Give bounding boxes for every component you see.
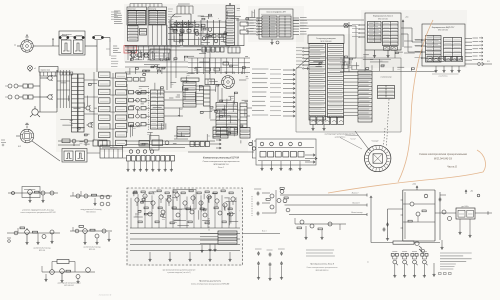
grid wires W5 <box>188 58 250 74</box>
svg-text:дел 50Hz: дел 50Hz <box>461 206 468 208</box>
svg-text:МЛ2.242.003 Сб: МЛ2.242.003 Сб <box>316 269 329 272</box>
wire trunk x40 <box>40 72 48 112</box>
stub comb top <box>130 4 162 8</box>
+U arrow 1 <box>412 184 418 191</box>
cells row top ML <box>125 78 145 82</box>
feedback loop frame <box>403 190 435 241</box>
switch box S1 <box>39 67 58 77</box>
output stages Z1-Z4 <box>391 252 428 278</box>
IC block L1 <box>151 90 165 129</box>
tube socket V2 <box>16 123 34 148</box>
wire cluster mid-left <box>128 82 183 148</box>
IC column C1 <box>358 71 372 122</box>
tube socket V1 <box>14 35 36 53</box>
scan tone 5 <box>127 188 243 266</box>
cells E3 <box>204 86 211 106</box>
det block U7 <box>456 206 475 219</box>
scan tone 4 <box>361 10 467 68</box>
dashed wire <box>148 88 150 131</box>
connector X1 <box>5 84 23 88</box>
wire node A <box>36 39 59 46</box>
notes text right <box>440 253 472 262</box>
wire cluster left strips <box>60 83 97 144</box>
svg-text:техотдел 4: техотдел 4 <box>99 294 112 297</box>
loop components <box>401 194 436 228</box>
wire cluster mid-center <box>181 77 248 144</box>
bottom rail y71 <box>340 70 436 72</box>
right cluster U6 <box>435 192 456 240</box>
loop bottom components <box>415 241 425 252</box>
wire y152 <box>188 151 254 153</box>
cells E5 <box>213 127 238 138</box>
svg-text:Схема электрическая принципиал: Схема электрическая принципиальная <box>419 152 467 156</box>
svg-text:Часть Б: Часть Б <box>447 166 457 169</box>
delay arrows <box>288 154 317 172</box>
wire mesh extra top-middle <box>170 23 229 48</box>
svg-text:МЛ2.034: МЛ2.034 <box>39 250 45 252</box>
connector X2 <box>5 95 23 99</box>
transformer TR1 <box>59 35 69 39</box>
transistor Q6 <box>142 52 148 58</box>
label haze D1 <box>168 9 175 22</box>
BT1 grounds <box>200 244 216 252</box>
svg-text:«частота»: «частота» <box>438 76 448 78</box>
transistor Q1 <box>46 75 52 81</box>
wide resistor RB <box>371 241 440 244</box>
handwritten title <box>419 152 467 169</box>
component rows ML <box>129 90 147 126</box>
junction drops <box>128 25 166 60</box>
filter F3 <box>62 139 70 143</box>
transformer TR2 <box>74 35 85 39</box>
wire x110 drop <box>106 42 110 56</box>
wire cluster top feed <box>198 8 255 20</box>
svg-text:МЛ2.244.002 Сб: МЛ2.244.002 Сб <box>213 163 229 166</box>
IC W1 <box>365 13 401 50</box>
lower cluster R3 <box>295 218 346 239</box>
filter circuit C <box>7 227 60 244</box>
left rail caps <box>383 209 403 240</box>
stage cluster R1 <box>262 190 281 213</box>
comb left CL <box>57 70 73 108</box>
dashed stub <box>208 218 210 231</box>
cell strip A <box>72 74 85 132</box>
filter circuit A <box>8 187 58 203</box>
svg-text:Коммутатор реализаций БЛ-9А: Коммутатор реализаций БЛ-9А <box>203 157 240 160</box>
analog board outline and stages <box>127 188 243 265</box>
caption E <box>57 282 80 287</box>
svg-text:Выход I: Выход I <box>352 192 359 195</box>
block F1c <box>216 103 238 136</box>
connector out X4 <box>465 61 492 66</box>
cells row S2 <box>197 47 240 53</box>
cap column M2 <box>267 250 273 280</box>
comb E2 <box>196 86 204 104</box>
label haze U5 <box>427 37 441 55</box>
wire cluster V bottom <box>307 61 385 70</box>
svg-text:Лист 1: Лист 1 <box>217 167 224 169</box>
caption M5 <box>306 263 337 272</box>
wire cluster right band <box>343 52 414 71</box>
caption D <box>84 246 101 251</box>
transistor Q5 <box>136 52 142 58</box>
svg-text:+12в: +12в <box>412 184 416 186</box>
wire U1 to V4 <box>293 20 364 58</box>
U5 waveform cells <box>427 57 463 62</box>
svg-text:Ш3: Ш3 <box>487 61 490 63</box>
horiz wires center <box>125 90 252 120</box>
W1 grounds <box>370 50 391 62</box>
transistor Q3 <box>30 106 57 117</box>
IC U5 <box>422 24 465 66</box>
tube socket V5 <box>365 145 391 171</box>
caption B <box>81 208 102 213</box>
svg-text:Преобразователь Блок 4: Преобразователь Блок 4 <box>310 263 335 266</box>
caption C <box>34 247 51 252</box>
notes text right2 <box>440 264 456 269</box>
comb V4-C <box>344 72 359 116</box>
input caps column <box>252 189 261 216</box>
U5 right pins <box>465 37 483 61</box>
svg-text:вход усилителя 2-й каскад: вход усилителя 2-й каскад <box>81 208 102 211</box>
svg-text:МЛ2.244.040 Сб: МЛ2.244.040 Сб <box>434 158 453 161</box>
svg-text:+6в: +6в <box>470 191 473 193</box>
svg-text:Схема электрическая принципиал: Схема электрическая принципиальная МЛ2.2… <box>191 283 229 286</box>
svg-text:перекл вкл: перекл вкл <box>41 70 51 72</box>
note text M4 <box>306 250 335 256</box>
IC V4 left column <box>309 44 326 121</box>
label haze U1 <box>263 18 276 35</box>
IC V4 title <box>308 35 344 44</box>
output table BT1 <box>200 231 237 244</box>
lamp H1 <box>28 66 38 72</box>
delay grounds <box>260 161 301 170</box>
W1 waveform cells <box>384 47 398 51</box>
U5 grounds <box>432 66 461 74</box>
leader line V4 <box>340 138 362 150</box>
cap column M3 <box>278 249 285 279</box>
pulse shaper block A2 <box>62 149 87 163</box>
transistor Q8 <box>87 122 93 128</box>
table N7 <box>240 128 256 159</box>
pin labels V4 <box>252 69 268 115</box>
scan tone 2 <box>56 68 248 152</box>
tube socket V3 <box>222 76 235 89</box>
svg-text:«выход»: «выход» <box>371 141 378 143</box>
RC lattice M1 <box>168 20 226 45</box>
svg-text:Выход II: Выход II <box>353 202 360 205</box>
filter F2 <box>23 95 40 99</box>
inter wires <box>340 50 395 72</box>
U5 left pins <box>415 39 426 58</box>
labels left of red box <box>113 46 121 53</box>
transistor Q10 <box>84 139 88 146</box>
delay unit strip <box>256 139 316 165</box>
cap column M1 <box>255 249 262 279</box>
svg-text:Выход контр: Выход контр <box>351 211 362 214</box>
cells N5 <box>190 142 216 147</box>
svg-text:МЛ2.036.002: МЛ2.036.002 <box>64 285 74 287</box>
pulse shaper block A1 <box>59 31 85 55</box>
block boundary <box>296 58 401 132</box>
strip feed wires <box>252 141 256 158</box>
vert wires center <box>167 25 222 102</box>
output line 3 <box>289 211 367 216</box>
unit marks <box>439 273 452 275</box>
V5 label <box>371 141 378 143</box>
cell strip C <box>116 73 127 145</box>
svg-text:эмиттерный повторитель вых: эмиттерный повторитель вых <box>57 282 80 285</box>
transistor Q9 <box>72 139 76 146</box>
scan tone 3 <box>296 34 402 132</box>
caption A <box>20 209 55 215</box>
column G1 <box>240 103 247 128</box>
V4 left pins <box>270 47 309 117</box>
stage Z5 <box>432 263 435 276</box>
svg-text:усилитель 3-й каскад: усилитель 3-й каскад <box>34 247 51 250</box>
arrow bundle N6 <box>174 136 221 149</box>
IC U1 <box>259 9 293 39</box>
IC table D2 <box>148 7 167 25</box>
cells table E4 <box>177 127 190 137</box>
block S3 <box>150 49 170 60</box>
delay block H1 <box>171 14 191 27</box>
pencil curve A <box>398 20 433 182</box>
U1 ground <box>270 39 279 44</box>
wires y141 <box>110 141 215 148</box>
wire top bus <box>236 19 259 21</box>
caption V4 <box>325 133 356 139</box>
V4 grounds <box>311 125 325 131</box>
output line 1 <box>280 192 367 197</box>
svg-text:в режиме ожидания (см табл 1): в режиме ожидания (см табл 1) <box>167 272 191 274</box>
svg-text:Приемник-усилитель: Приемник-усилитель <box>199 281 222 283</box>
dashed leader to V5 <box>387 99 390 146</box>
labels x112 <box>111 12 119 66</box>
IC table D1 <box>127 7 147 25</box>
IC column D3 <box>128 26 139 42</box>
pencil curve B <box>328 150 485 193</box>
wire cluster under tables <box>128 48 248 61</box>
filter F1 <box>23 84 40 88</box>
caption board1 <box>203 157 241 170</box>
stab table D5 <box>378 77 395 99</box>
svg-text:усилитель предварительный 1-й: усилитель предварительный 1-й каскад <box>22 209 53 212</box>
W1 left pins <box>352 24 365 37</box>
freq label <box>438 76 448 78</box>
svg-text:усилитель 4-й каскад: усилитель 4-й каскад <box>84 246 101 249</box>
svg-text:«контр»: «контр» <box>350 139 356 141</box>
cells block A3 <box>87 146 123 159</box>
wire cluster analog box <box>134 191 240 228</box>
cell row N2 <box>123 156 175 162</box>
svg-text:Вых 4: Вых 4 <box>262 231 266 233</box>
IC column E1 <box>181 78 199 107</box>
svg-text:МЛ2.033.011: МЛ2.033.011 <box>86 211 95 213</box>
svg-text:при включении блока усилитель: при включении блока усилитель работает <box>163 270 196 272</box>
pin labels D1 left <box>114 11 123 24</box>
svg-text:МЛ2.035: МЛ2.035 <box>89 249 95 251</box>
+5v rail <box>402 17 408 48</box>
cells K2 <box>238 18 248 46</box>
stage cluster R2 <box>280 188 290 212</box>
annotation red box <box>124 46 137 54</box>
IC V4 right column <box>328 44 344 118</box>
filter circuit B <box>70 191 112 206</box>
svg-text:вх: вх <box>367 262 369 264</box>
U1 left pins <box>246 17 262 35</box>
footer cells V4 <box>310 117 344 125</box>
wire W-FLC <box>401 28 422 52</box>
U1 right pins <box>293 18 309 35</box>
wires W6 <box>125 62 188 72</box>
V5 leads <box>345 128 385 151</box>
transistor Q7 <box>85 105 91 111</box>
svg-text:схема электрическая принципиал: схема электрическая принципиальная МЛ2.0… <box>20 212 55 214</box>
transistor Q4 <box>129 52 135 58</box>
leader wire <box>32 141 60 161</box>
transistor row N3 <box>129 150 153 153</box>
label haze V4 <box>310 46 324 109</box>
output line 2 <box>285 202 368 207</box>
wire x94 <box>84 72 98 140</box>
svg-text:«имп»: «имп» <box>288 170 293 172</box>
IC cells D4 <box>140 29 147 36</box>
+U arrow 2 <box>465 190 473 194</box>
filter circuit D <box>70 226 112 245</box>
wire Q1 out <box>54 70 57 112</box>
wire y233 <box>243 231 281 234</box>
wire x127 <box>126 84 128 133</box>
U7 out wire <box>458 194 492 237</box>
filter circuit E <box>42 260 95 284</box>
block small H2 <box>205 79 215 85</box>
column Z0 <box>440 240 443 249</box>
caption analog2 <box>191 281 229 286</box>
label haze C1 <box>359 74 371 117</box>
bus lines B1 <box>125 45 244 50</box>
stub comb H top <box>177 4 193 14</box>
edge mark <box>1 140 6 146</box>
label haze W1 <box>369 23 381 40</box>
svg-text:Схема электрическая принципиал: Схема электрическая принципиальная <box>306 267 337 269</box>
crystal X3 <box>344 22 352 72</box>
transformer TR3 <box>93 35 104 39</box>
wires ML ties <box>146 92 150 124</box>
ground row N4 <box>126 161 173 171</box>
feedback loop left rail <box>403 190 405 241</box>
cell strip B <box>99 72 111 146</box>
U5 pin links <box>404 40 423 53</box>
transistor Q2 <box>46 94 52 100</box>
stamp mark <box>99 294 112 297</box>
caption analog1 <box>163 270 196 275</box>
left long wire <box>367 196 372 264</box>
svg-text:«развертка»: «развертка» <box>334 136 345 138</box>
scan tone 1 <box>124 4 240 62</box>
svg-text:Схема электрическая принципиал: Схема электрическая принципиальная <box>203 161 241 163</box>
wire x113 <box>110 73 115 147</box>
wire row bottom-left <box>58 141 94 145</box>
wire cluster mid band <box>126 62 245 76</box>
IC column K1 <box>226 3 235 46</box>
wire trunk x97 <box>85 38 110 73</box>
cells F4 <box>93 140 107 146</box>
block row N1 <box>139 136 169 151</box>
scan tone 6 <box>248 6 304 42</box>
